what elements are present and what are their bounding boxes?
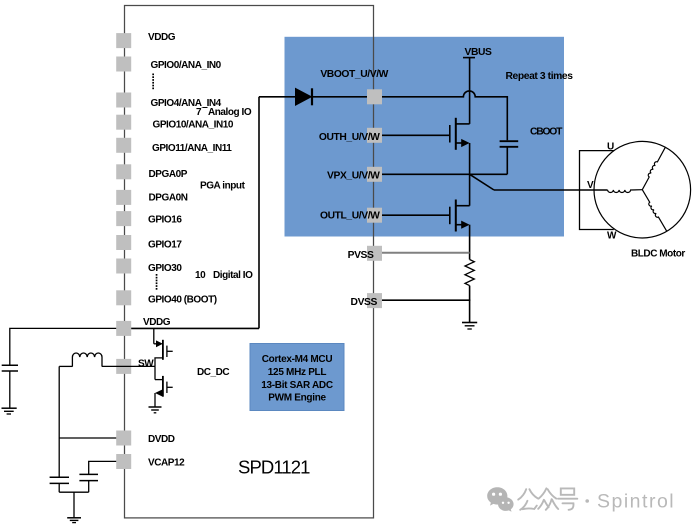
- wire OUTH pin to Q1 gate: [382, 134, 450, 136]
- wire riser VDDG net (vertical): [258, 97, 260, 329]
- motor terminal labels U V W: [587, 141, 685, 259]
- pin GPIO10/ANA_IN10: [116, 115, 131, 130]
- wire join bar: [59, 491, 88, 493]
- pin GPIO40 (BOOT): [116, 290, 131, 305]
- capacitor C1 (DVDD): [50, 477, 69, 483]
- pin GPIO16: [116, 211, 131, 226]
- wire Q2 source down to resistor: [469, 225, 471, 260]
- gate driver block (blue, Repeat 3 times): [285, 37, 565, 237]
- Q1 source arrow: [461, 139, 469, 147]
- pin GPIO17: [116, 235, 131, 250]
- wire VPX row: pin to CBOOT bottom: [382, 173, 507, 175]
- wire diode cathode to VBOOT pin: [313, 96, 367, 98]
- wire OUTL pin to Q2 gate: [382, 214, 450, 216]
- wire DVSS pin to resistor net: [382, 299, 470, 301]
- wire CBOOT bottom plate drop: [506, 147, 508, 174]
- inductor L1: [72, 353, 102, 367]
- pin VCAP12: [116, 454, 131, 469]
- MCU features box (Cortex-M4): [250, 344, 344, 411]
- ground (below shunt): [462, 323, 477, 330]
- wires: black nets: [131, 58, 607, 329]
- transistor Q2 (low-side MOSFET): [450, 200, 470, 232]
- pin name labels (right) and blue-box labels: [319, 47, 573, 308]
- capacitor C3 (VDDG bypass): [2, 365, 18, 371]
- motor winding W (coil): [642, 190, 667, 232]
- wire VBOOT pin to CBOOT top with hop over VBUS: [382, 91, 507, 140]
- Q3 arrow: [156, 340, 163, 347]
- MCU U1 SPD1121 outline: [125, 6, 374, 518]
- resistor R1 (shunt): [465, 260, 474, 286]
- left pins of U1: [116, 33, 131, 469]
- wire VCAP12 pin to C2: [89, 461, 117, 474]
- pin VDDG (top): [116, 33, 131, 48]
- wire V phase to motor: [494, 189, 608, 191]
- ground (under Q4): [149, 407, 162, 413]
- transistor Q3 (buck high-side): [154, 328, 173, 366]
- pin VPX_U/V/W: [367, 167, 382, 182]
- BLDC motor M1 body: [594, 141, 691, 238]
- wire inductor left step: [59, 365, 72, 367]
- ground (under C3): [2, 408, 17, 414]
- wire VDDG pin to riser: [131, 327, 259, 329]
- wire SW to Q4: [154, 366, 156, 379]
- pin DVDD: [116, 431, 131, 446]
- transistor Q1 (high-side MOSFET): [450, 118, 470, 150]
- wire Q1 source to VPX node to Q2 drain: [469, 143, 471, 206]
- pin name labels (left): [138, 32, 253, 469]
- motor winding V (coil): [608, 190, 643, 193]
- pin DPGA0N: [116, 190, 131, 205]
- capacitor C2 (VCAP12): [79, 474, 98, 480]
- pin VBOOT_U/V/W: [367, 89, 382, 104]
- capacitor CBOOT: [500, 141, 519, 147]
- pin SW: [116, 359, 131, 374]
- wire VDDG to diode anode: [259, 96, 296, 98]
- phase bracket U/V/W: [580, 151, 614, 230]
- MCU feature list text: [261, 354, 333, 404]
- wire VBUS vertical to Q1 drain: [469, 58, 471, 124]
- wire SW node: inductor to pin to FETs: [102, 365, 155, 367]
- wire PVSS (gray): [382, 252, 470, 254]
- wire C1 bottom to join: [58, 484, 60, 492]
- pin GPIO4/ANA_IN4: [116, 93, 131, 108]
- wire VBUS terminal bar: [463, 57, 475, 59]
- right pins of U1: [367, 89, 382, 308]
- ground (C1/C2 join): [67, 518, 81, 523]
- transistor Q4 (buck low-side): [155, 376, 173, 407]
- ellipsis dots GPIO30..GPIO40: [156, 274, 158, 290]
- pin OUTL_U/V/W: [367, 208, 382, 223]
- pin DVSS: [367, 293, 382, 308]
- wire left cap to ground: [9, 372, 11, 408]
- svg-text:Spintrol: Spintrol: [597, 491, 675, 513]
- Q2 source arrow: [461, 221, 469, 229]
- wire join to ground: [73, 492, 75, 517]
- watermark separator dot: [585, 499, 589, 503]
- pin OUTH_U/V/W: [367, 128, 382, 143]
- wire phase diagonal from VPX node: [470, 174, 494, 190]
- motor winding U (coil): [642, 147, 665, 189]
- wire resistor to DVSS row to ground: [469, 286, 471, 322]
- pin GPIO11/ANA_IN11: [116, 138, 131, 153]
- wire C2 bottom to join: [88, 481, 90, 492]
- wire DVDD pin to rail: [59, 437, 116, 439]
- diode D1 (bootstrap): [296, 88, 313, 105]
- Q4 arrow: [155, 390, 162, 397]
- watermark text GONG ZHONG HAO (drawn strokes): [518, 488, 577, 509]
- pin GPIO0/ANA_IN0: [116, 57, 131, 72]
- DC_DC buck converter wires: [10, 328, 155, 517]
- pin DPGA0P: [116, 164, 131, 179]
- WeChat bubbles logo: [487, 487, 507, 505]
- wire left rail down to C1: [58, 366, 60, 477]
- pin GPIO30: [116, 259, 131, 274]
- pin PVSS: [367, 246, 382, 261]
- ellipsis dots GPIO0..GPIO4: [152, 74, 154, 90]
- pin VDDG (power): [116, 321, 131, 336]
- wire VDDG pin to left bypass cap: [10, 328, 116, 365]
- tick over Analog IO count: [203, 107, 208, 109]
